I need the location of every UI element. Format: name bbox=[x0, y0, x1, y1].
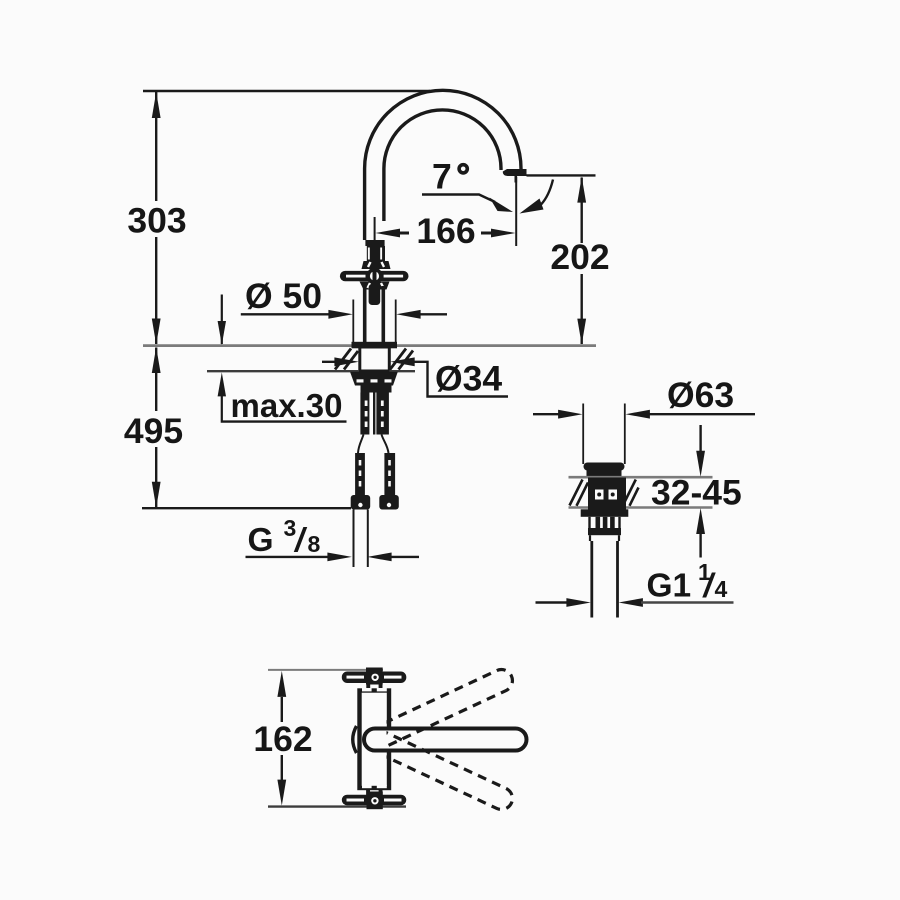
dimension max.30 bbox=[218, 295, 347, 425]
dimension 303 bbox=[127, 92, 186, 345]
svg-text:32-45: 32-45 bbox=[651, 473, 742, 513]
top extension line (spout top) bbox=[143, 90, 430, 92]
plan faucet body bbox=[360, 691, 390, 789]
hose end line bbox=[142, 507, 351, 509]
svg-text:8: 8 bbox=[308, 531, 321, 557]
plan spout hub bulge bbox=[353, 726, 357, 753]
drain hatching bbox=[570, 480, 639, 506]
dimension 202 bbox=[527, 175, 610, 344]
svg-text:Ø63: Ø63 bbox=[667, 375, 734, 415]
body tube below handle bbox=[363, 286, 367, 343]
svg-text:495: 495 bbox=[124, 411, 183, 451]
spout gooseneck inner bbox=[384, 110, 501, 221]
spout outlet cap bbox=[503, 169, 527, 176]
svg-text:303: 303 bbox=[127, 201, 186, 241]
svg-text:7: 7 bbox=[432, 157, 452, 197]
svg-text:G: G bbox=[248, 522, 274, 559]
drain lower band bbox=[588, 528, 621, 535]
plan top cross handle bar bbox=[342, 668, 407, 691]
flexible hose curves bbox=[358, 435, 364, 454]
base flange bbox=[352, 342, 398, 349]
svg-text:202: 202 bbox=[550, 237, 609, 277]
dimension 166 bbox=[375, 177, 517, 251]
drain locking nut bbox=[581, 509, 629, 517]
G 3/8 pipe bbox=[353, 510, 355, 568]
dimension diameter 50 bbox=[241, 276, 447, 343]
shank through counter bbox=[360, 347, 390, 371]
drain cap bbox=[584, 463, 625, 471]
spout gooseneck outer bbox=[365, 90, 521, 240]
drain counter lines bbox=[569, 476, 713, 479]
collar below nut bbox=[361, 386, 392, 393]
dimension G 3/8 bbox=[246, 515, 420, 561]
counter surface line bbox=[143, 344, 596, 347]
svg-text:162: 162 bbox=[253, 719, 312, 759]
dimension 32-45 bbox=[651, 425, 742, 558]
svg-text:G1: G1 bbox=[647, 568, 692, 605]
drain thread section bbox=[590, 517, 620, 528]
drain body through counter bbox=[588, 478, 626, 510]
svg-text:Ø 50: Ø 50 bbox=[245, 276, 322, 316]
plan spout (solid) bbox=[364, 729, 526, 751]
dimension diameter 34 bbox=[322, 357, 508, 398]
svg-text:Ø34: Ø34 bbox=[435, 359, 502, 399]
7 degree label bbox=[422, 157, 553, 214]
drain tailpipe bbox=[590, 541, 593, 618]
plan dashed swivel spouts bbox=[370, 666, 516, 813]
plan top extension line bbox=[268, 669, 383, 671]
dimension diameter 63 bbox=[533, 375, 755, 419]
plan bottom cross handle bar bbox=[342, 790, 407, 809]
svg-text:4: 4 bbox=[715, 576, 728, 602]
dimension G1 1/4 bbox=[536, 559, 734, 607]
plan bottom extension line bbox=[268, 805, 406, 807]
svg-text:166: 166 bbox=[416, 211, 475, 251]
threaded studs bbox=[360, 393, 389, 435]
svg-text:max.30: max.30 bbox=[231, 387, 343, 424]
under-counter line bbox=[207, 370, 359, 372]
dimension 495 bbox=[124, 347, 183, 508]
mounting nut below counter bbox=[350, 372, 398, 386]
handle cross (front view) bbox=[340, 240, 409, 305]
counter hatching (front view) bbox=[335, 349, 413, 370]
hose fittings bbox=[351, 453, 399, 510]
drain extension lines bbox=[582, 404, 584, 465]
dimension 162 bbox=[253, 671, 312, 806]
